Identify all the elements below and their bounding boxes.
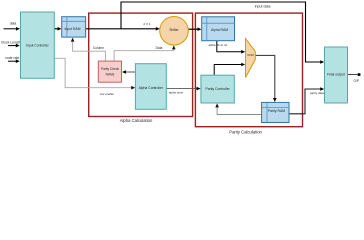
svg-text:alpha (N-1) ref: alpha (N-1) ref — [208, 43, 227, 47]
svg-text:Parity Controller: Parity Controller — [205, 87, 230, 91]
block Final output — [325, 47, 348, 103]
wire Parity Controller to mux input 2 — [214, 63, 245, 75]
wire Input Controller to Input RAM — [54, 27, 61, 31]
svg-text:row enable: row enable — [100, 92, 115, 96]
svg-text:data: data — [10, 22, 17, 26]
svg-text:Parity Check: Parity Check — [101, 67, 119, 71]
wire data input arrow — [4, 22, 21, 31]
svg-text:Alpha RAM: Alpha RAM — [211, 28, 228, 32]
svg-text:Parity Calculation: Parity Calculation — [229, 130, 262, 135]
block Input RAM — [62, 17, 86, 37]
group box Alpha Calculation — [89, 13, 193, 123]
svg-text:block Length: block Length — [1, 41, 20, 45]
svg-text:O/P: O/P — [354, 79, 360, 83]
svg-text:Input Controller: Input Controller — [26, 44, 49, 48]
svg-text:Alpha Controller: Alpha Controller — [139, 86, 164, 90]
svg-text:Input RAM: Input RAM — [64, 27, 80, 31]
svg-text:XOR: XOR — [247, 53, 254, 57]
wire Alpha RAM to mux input 1 (alpha (N-1) ref) — [208, 41, 245, 54]
svg-text:parity data: parity data — [310, 91, 324, 95]
group box Parity Calculation — [195, 13, 302, 135]
svg-text:Column: Column — [93, 46, 104, 50]
svg-text:Parity RAM: Parity RAM — [268, 109, 285, 113]
svg-text:alpha done: alpha done — [169, 91, 184, 95]
block Alpha Controller — [135, 64, 166, 110]
svg-text:2 X 1: 2 X 1 — [143, 22, 151, 26]
svg-text:RAMs: RAMs — [106, 73, 115, 77]
block Alpha RAM — [202, 17, 235, 41]
block Shifter (circle) — [160, 17, 189, 46]
wire block Length input arrow — [1, 41, 20, 48]
block Input Controller — [21, 12, 55, 78]
wire Parity Check RAMs to Shifter (Data) — [114, 45, 176, 61]
wire Alpha Controller to Parity Controller (alpha done) — [166, 87, 200, 95]
wire Input Controller to Alpha Controller (row enable) — [54, 58, 135, 96]
wire Parity RAM to Parity Controller — [215, 103, 261, 114]
wire input data (top long route to Final output) — [121, 2, 324, 64]
wire Shifter to Alpha RAM — [188, 27, 201, 31]
svg-text:code rate: code rate — [5, 56, 19, 60]
wire Final output to O/P endpoint — [348, 73, 361, 83]
wire code rate input arrow — [5, 56, 20, 63]
wire Alpha Controller to Parity Check RAMs — [122, 70, 135, 74]
svg-text:Shifter: Shifter — [169, 28, 179, 32]
svg-text:Alpha Calculation: Alpha Calculation — [120, 118, 153, 123]
svg-text:Data: Data — [156, 46, 163, 50]
wire Parity Check RAMs to Input RAM (Column) — [71, 38, 106, 61]
block mux XOR (trapezoid) — [246, 39, 256, 78]
wire Input RAM to Shifter — [86, 22, 160, 31]
block Parity Controller — [201, 75, 234, 103]
svg-text:input data: input data — [255, 5, 271, 9]
wire Parity RAM to Final output (parity data) — [289, 87, 324, 114]
svg-text:Final output: Final output — [327, 73, 345, 77]
block Parity Check RAMs — [98, 61, 121, 82]
wire mux XOR output to Parity RAM — [256, 55, 277, 102]
block Parity RAM — [262, 102, 289, 122]
